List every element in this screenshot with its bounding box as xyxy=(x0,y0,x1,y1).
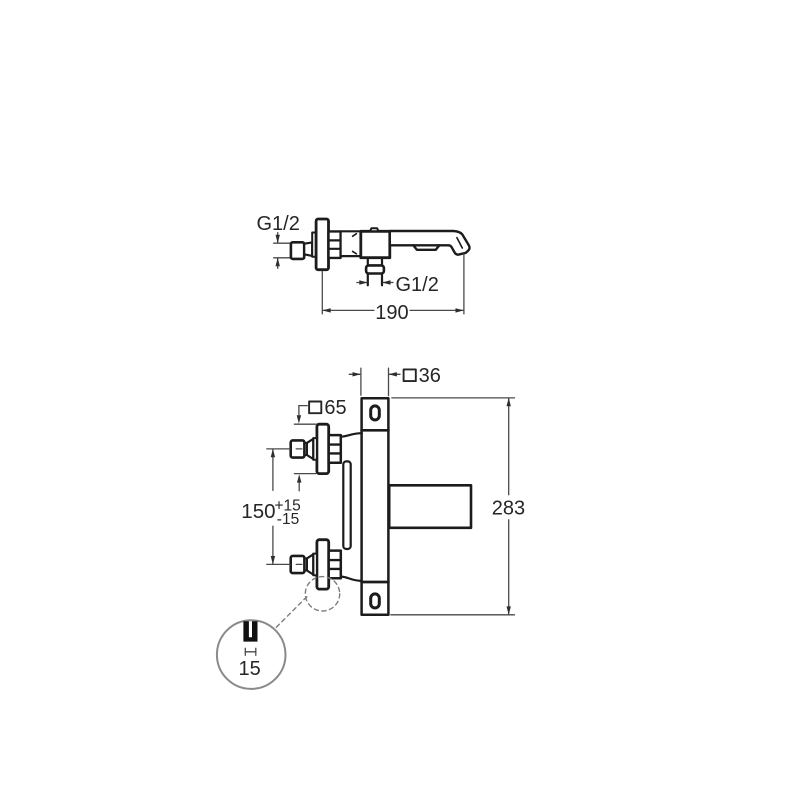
dimension square36 xyxy=(349,368,400,395)
svg-text:36: 36 xyxy=(419,365,441,387)
neck top xyxy=(304,443,307,455)
bracket top ear bottom edge xyxy=(362,429,389,432)
svg-text:283: 283 xyxy=(492,497,525,519)
dashed leader line xyxy=(275,597,307,629)
detail magnifier circle xyxy=(217,620,286,689)
cylinder collar top xyxy=(313,438,317,460)
knob top xyxy=(291,440,305,457)
union nut bottom xyxy=(329,551,341,579)
wall flange (side view) xyxy=(316,219,328,270)
cylinder collar bottom xyxy=(313,554,317,576)
shower outlet thread tube xyxy=(367,274,369,286)
svg-text:-15: -15 xyxy=(277,511,299,528)
bottom ear slot xyxy=(371,594,380,608)
svg-text:15: 15 xyxy=(239,658,261,680)
body cylinder xyxy=(341,231,361,256)
main body block xyxy=(361,231,390,257)
label square36 xyxy=(404,369,416,381)
cone bottom xyxy=(307,554,313,574)
svg-text:150: 150 xyxy=(241,500,275,523)
spout (side view) xyxy=(390,231,470,255)
arrowhead up xyxy=(276,258,280,266)
shower outlet neck xyxy=(367,258,369,266)
svg-text:190: 190 xyxy=(375,302,408,324)
flange escutcheon bottom xyxy=(317,540,329,589)
handle cone xyxy=(304,242,312,256)
flange escutcheon top xyxy=(317,424,329,473)
channel profile U section xyxy=(243,621,257,641)
union nut (side view) xyxy=(329,231,341,258)
union nut top xyxy=(329,435,341,463)
spout (rear view) xyxy=(389,485,471,528)
handle knob (side view) xyxy=(291,242,304,259)
taper tick top xyxy=(353,234,357,237)
bracket bottom ear top edge xyxy=(362,581,389,584)
diverter bump on top xyxy=(370,228,379,231)
svg-text:G1/2: G1/2 xyxy=(396,274,439,296)
wall bracket plate xyxy=(362,398,389,615)
label square65 xyxy=(309,402,321,414)
top ear slot xyxy=(371,406,380,420)
aerator groove line xyxy=(413,244,439,246)
knob center dash top xyxy=(296,448,302,450)
dimension 190 xyxy=(322,254,464,314)
dimension knob G1/2 vertical arrows xyxy=(274,233,290,269)
detail dashed circle on bottom flange xyxy=(305,577,339,611)
dimension outlet G1/2 xyxy=(357,282,393,284)
dimension 150 xyxy=(267,449,290,565)
knob bottom xyxy=(291,556,305,573)
svg-text:G1/2: G1/2 xyxy=(257,213,300,235)
spout bend inner line xyxy=(457,238,462,248)
dimension 283 extension lines xyxy=(391,398,515,615)
handle neck collar xyxy=(312,233,316,257)
bottom valve to plate outline xyxy=(341,577,362,581)
dimension square65 xyxy=(294,406,316,491)
svg-text:65: 65 xyxy=(324,397,346,419)
dimension 15 ticks xyxy=(245,648,256,655)
neck bottom xyxy=(304,558,307,570)
knob center dash bottom xyxy=(296,563,302,565)
cone top xyxy=(307,439,313,459)
connecting bar between valves xyxy=(343,461,350,549)
top valve to plate outline xyxy=(341,433,362,437)
shower outlet ring xyxy=(366,265,384,273)
taper tick bottom xyxy=(353,251,357,253)
arrowhead down xyxy=(276,235,280,243)
